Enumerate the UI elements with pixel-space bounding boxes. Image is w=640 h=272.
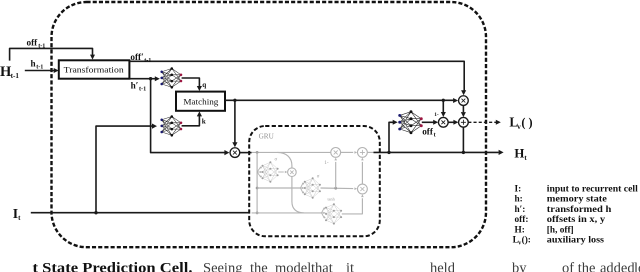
svg-text:t-1: t-1 xyxy=(144,57,151,64)
svg-text:off′: off′ xyxy=(130,52,143,62)
mlp GRU update gate sigma xyxy=(304,175,321,199)
wire GRU feed to update gate sigma xyxy=(257,183,305,194)
svg-text:I:: I: xyxy=(515,184,522,194)
wire update multiply up to sum xyxy=(361,158,364,185)
wire one-minus multiply to sum xyxy=(448,120,458,125)
wire GRU fan into reset gate sigma xyxy=(257,167,262,178)
op GRU one-minus multiply xyxy=(331,148,341,158)
svg-text:it: it xyxy=(346,260,354,272)
svg-text:σ: σ xyxy=(275,158,278,163)
wire Matching output weights line xyxy=(225,98,458,103)
svg-text:input to recurrent cell: input to recurrent cell xyxy=(547,184,638,194)
wire weight branch down to attention multiplier xyxy=(232,100,237,147)
svg-text:by: by xyxy=(512,260,527,272)
svg-text:h:: h: xyxy=(515,195,523,205)
wire GRU sum gray output stub xyxy=(367,151,373,153)
wire GRU left vertical feed xyxy=(256,152,259,214)
svg-text:H: H xyxy=(514,147,524,161)
svg-text:off: off xyxy=(27,37,39,47)
svg-text:memory state: memory state xyxy=(547,195,607,205)
wire memory through reset multiply down to candidate xyxy=(278,152,305,213)
outer recurrent-cell dashed border xyxy=(52,2,487,247)
svg-text:():: (): xyxy=(522,235,531,246)
svg-text:H:: H: xyxy=(515,225,525,235)
wire update gate output split xyxy=(321,158,358,190)
svg-text:offsets in x, y: offsets in x, y xyxy=(547,215,606,225)
box Matching xyxy=(176,92,225,111)
op GRU update multiply xyxy=(358,184,368,194)
op offset sum xyxy=(459,117,469,127)
wire q into Matching xyxy=(182,78,202,91)
svg-text:off: off xyxy=(422,127,434,137)
svg-text:1-: 1- xyxy=(324,160,329,166)
wire off'_t-1 long line to top-right multiplier xyxy=(129,61,466,95)
node h'_t-1 label xyxy=(131,80,147,92)
wire I_t input line xyxy=(31,211,250,214)
caption text cropped at bottom xyxy=(33,260,640,272)
wire branch up to offset mlp xyxy=(389,120,398,153)
wire weight down to one-minus multiply xyxy=(441,100,446,117)
wire candidate output up to update multiply xyxy=(342,194,364,214)
node off_t label xyxy=(422,127,436,139)
node L_v() label xyxy=(509,115,532,131)
svg-text:Seeing: Seeing xyxy=(203,260,242,272)
svg-text:Transformation: Transformation xyxy=(64,66,125,75)
op previous-offset multiply xyxy=(459,96,469,106)
svg-text:h′:: h′: xyxy=(515,205,526,215)
mlp GRU candidate tanh xyxy=(325,203,342,224)
node off_t-1 label xyxy=(27,37,46,49)
svg-text:loss: loss xyxy=(634,260,640,272)
wire reset gate output into reset multiply xyxy=(278,171,287,173)
svg-text:model: model xyxy=(275,260,311,272)
svg-text:t-1: t-1 xyxy=(11,72,20,80)
wire GRU bottom input line xyxy=(252,208,326,219)
node I_t label xyxy=(13,206,21,222)
box GRU dashed border xyxy=(249,126,380,236)
wire h_t-1 into Transformation xyxy=(25,68,59,73)
svg-text:Matching: Matching xyxy=(183,97,219,106)
wire attention output into GRU xyxy=(240,152,252,154)
svg-text:t State Prediction Cell.: t State Prediction Cell. xyxy=(33,260,193,272)
svg-text:σ: σ xyxy=(317,175,320,180)
node off'_t-1 label xyxy=(130,52,151,64)
svg-text:held: held xyxy=(430,260,456,272)
op GRU reset multiply xyxy=(288,168,297,177)
op one-minus multiply xyxy=(438,117,448,127)
wire dashed auxiliary loss arrow xyxy=(468,120,501,125)
wire h' down to attention multiplier xyxy=(151,79,230,156)
wire off_t-1 bracket from H_t-1 into Transformation top xyxy=(10,48,95,60)
svg-text:( ): ( ) xyxy=(521,116,532,130)
wire GRU main memory line xyxy=(252,151,331,154)
mlp offset head xyxy=(398,110,422,134)
wire h'_t-1 stub and junction xyxy=(129,76,159,81)
svg-text:h: h xyxy=(31,58,36,68)
svg-text:transformed h: transformed h xyxy=(547,205,612,215)
svg-text:tanh: tanh xyxy=(328,196,336,201)
svg-text:q: q xyxy=(202,81,206,89)
wire H_t output line xyxy=(374,150,504,155)
svg-text:t-1: t-1 xyxy=(139,85,146,92)
wire I_t branch up to K encoder xyxy=(96,124,157,213)
wire sum down to H_t line xyxy=(462,127,464,152)
svg-text:h′: h′ xyxy=(131,80,139,90)
wire k into Matching xyxy=(182,111,202,125)
node H_t label xyxy=(514,147,527,162)
legend key terms xyxy=(513,184,639,246)
svg-text:auxiliary loss: auxiliary loss xyxy=(547,236,605,246)
op attention multiply xyxy=(230,148,240,158)
op GRU sum xyxy=(358,148,368,158)
mlp Q encoder xyxy=(160,67,182,88)
svg-text:t-1: t-1 xyxy=(36,63,43,70)
svg-text:GRU: GRU xyxy=(259,132,275,140)
mlp GRU reset gate sigma xyxy=(262,158,279,183)
node h_t-1 label xyxy=(31,58,44,70)
svg-text:added: added xyxy=(600,260,635,272)
svg-text:off:: off: xyxy=(515,215,529,225)
mlp K encoder xyxy=(160,115,182,136)
svg-text:the: the xyxy=(250,260,268,272)
svg-text:of the: of the xyxy=(562,260,595,272)
svg-text:k: k xyxy=(202,117,206,125)
box Transformation xyxy=(59,60,130,78)
node H_t-1 label xyxy=(0,64,19,80)
wire previous-offset multiply down to sum xyxy=(461,106,466,118)
svg-text:that: that xyxy=(311,260,333,272)
wire offset head to one-minus multiply xyxy=(422,120,438,125)
wire one-minus multiply to sum xyxy=(341,151,358,154)
svg-text:1-: 1- xyxy=(434,112,439,118)
svg-text:[h, off]: [h, off] xyxy=(547,225,574,235)
